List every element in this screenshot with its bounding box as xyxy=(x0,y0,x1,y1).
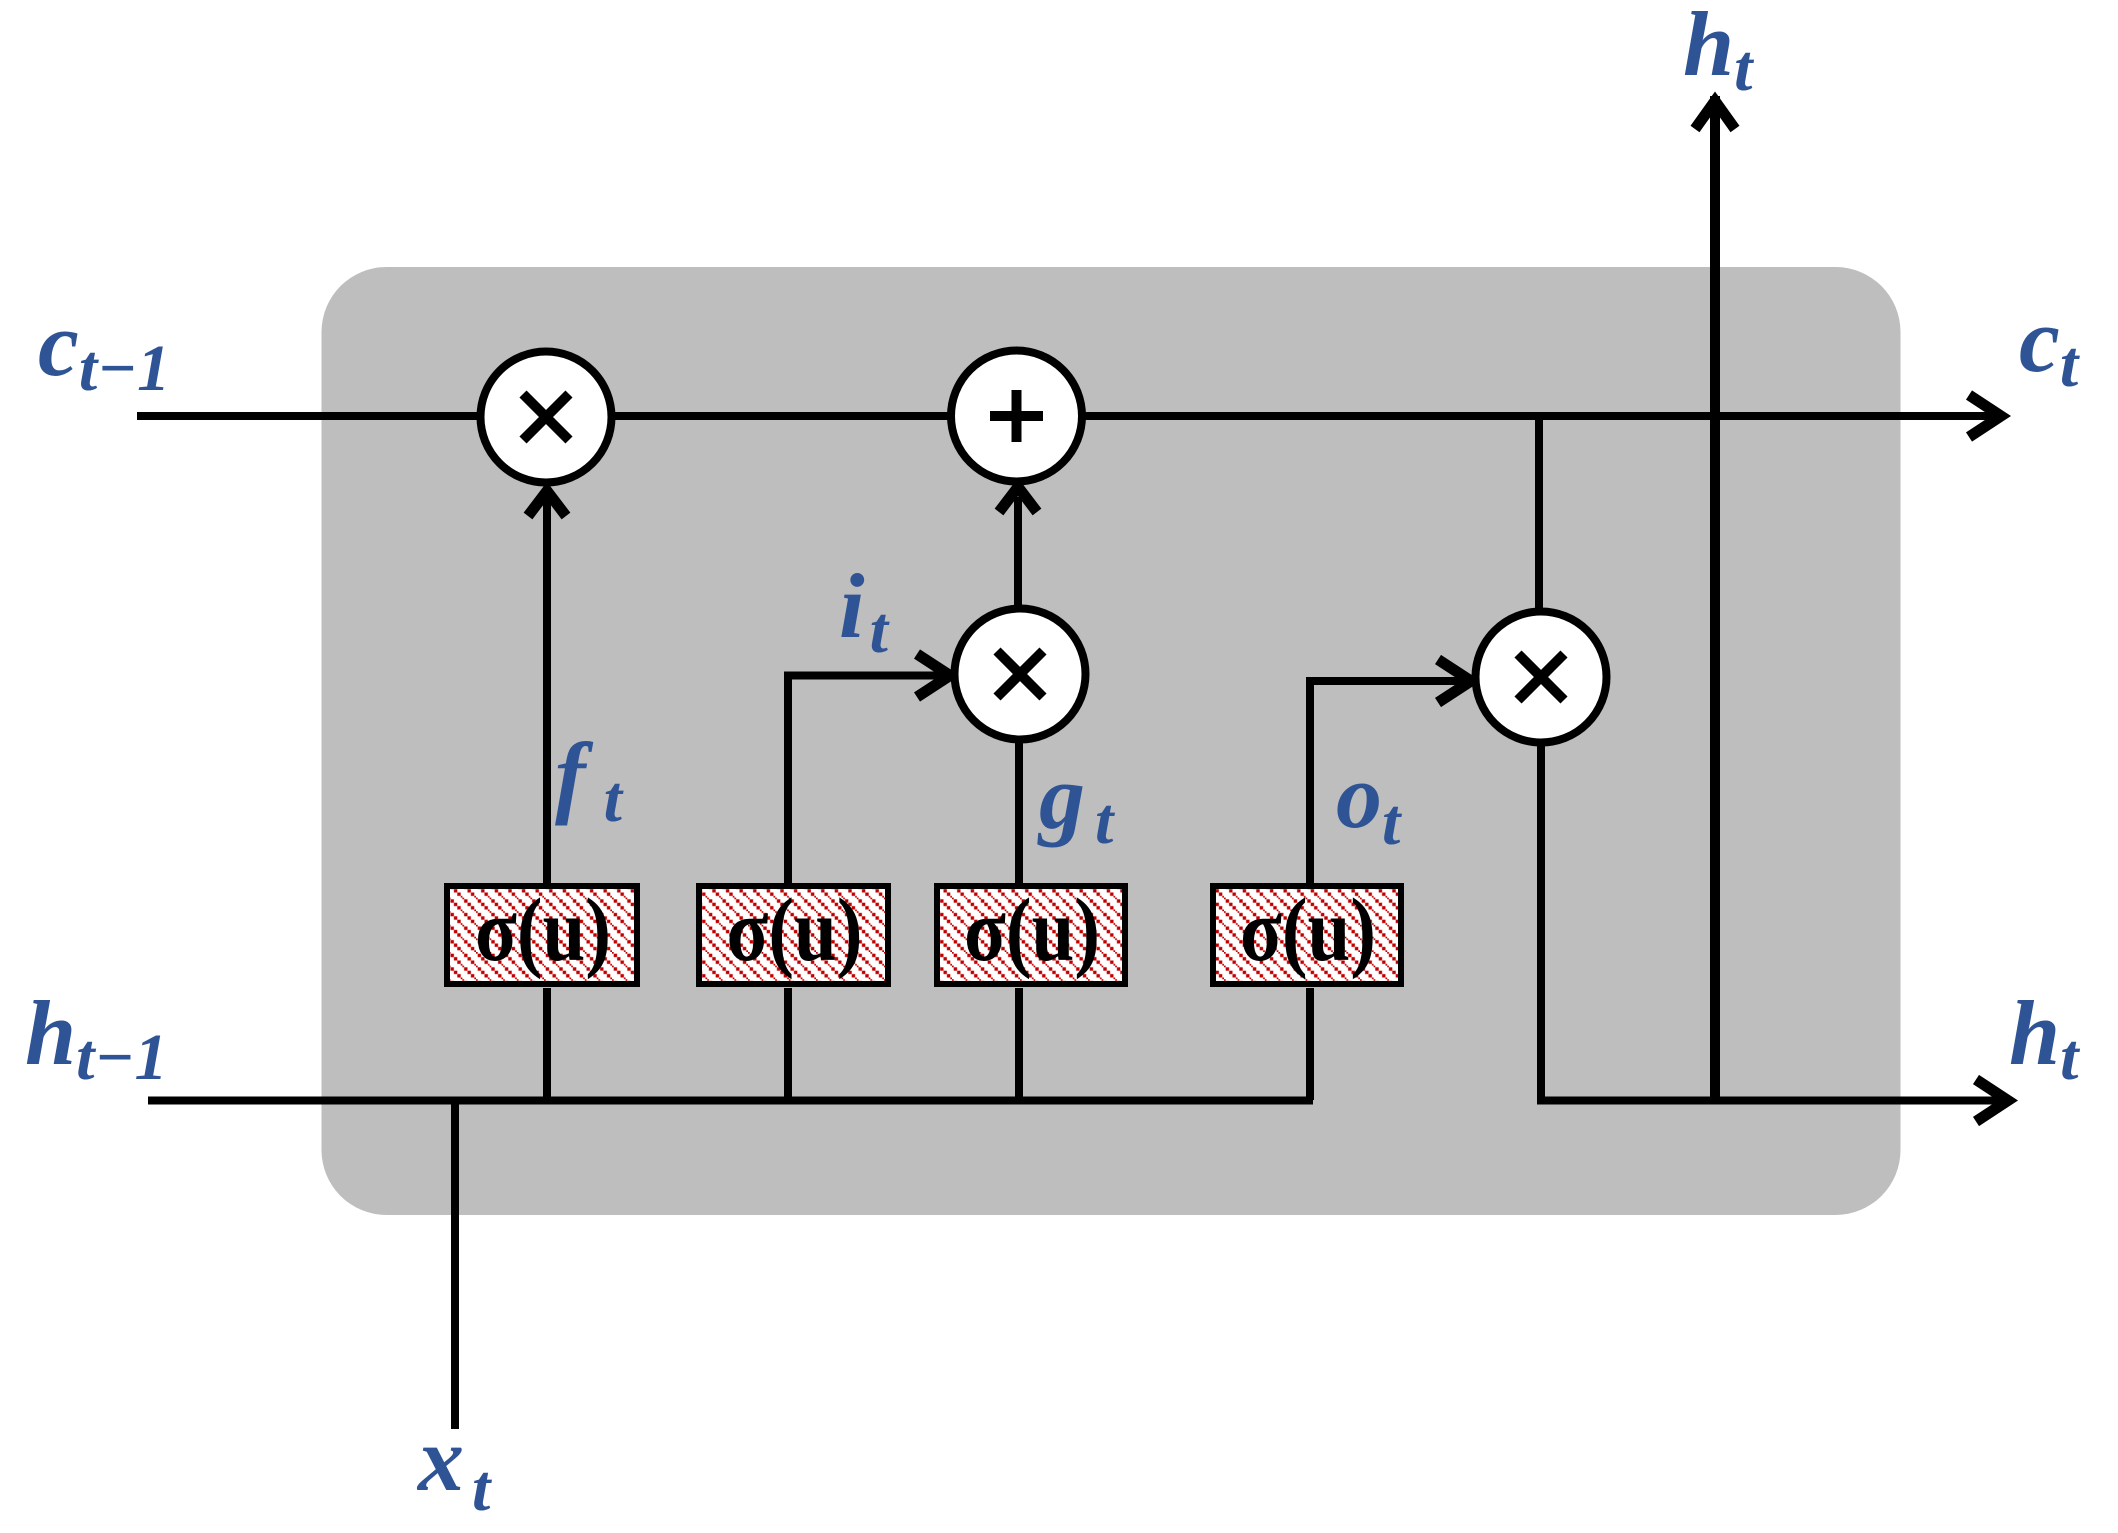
arrowhead: h_t top output xyxy=(1695,101,1735,129)
wire: cell state line c_{t-1} to c_t xyxy=(137,412,2005,420)
svg-text:ct: ct xyxy=(2019,289,2080,401)
arrowhead: c_t output xyxy=(1969,395,2001,437)
svg-text:xt: xt xyxy=(416,1408,492,1525)
svg-text:ct−1: ct−1 xyxy=(38,293,170,405)
wire: o gate elbow up and right to multiply node 3 xyxy=(1310,681,1461,884)
wire: cell line branch down to multiply node 3 xyxy=(1535,416,1543,610)
svg-text:ht: ht xyxy=(2009,982,2080,1094)
svg-text:σ(u): σ(u) xyxy=(1240,881,1376,980)
arrowhead: into add node xyxy=(999,487,1037,512)
arrowhead: i_t into multiply node 2 xyxy=(917,654,950,697)
multiply node 1 (x on cell line) xyxy=(481,352,612,483)
wire: f gate stub up to multiply node (with arrow) xyxy=(543,500,551,884)
wire: h_t vertical up output xyxy=(1710,96,1720,1101)
svg-text:ht−1: ht−1 xyxy=(25,982,168,1094)
wire: g gate stub down to h line xyxy=(1015,988,1023,1100)
arrowhead: o_t into multiply node 3 xyxy=(1438,660,1471,703)
wire: o gate stub down to h line xyxy=(1306,988,1314,1100)
arrowhead: h_t right output xyxy=(1976,1080,2008,1122)
wire: multiply node 2 up to add node (with arrow) xyxy=(1014,497,1022,605)
sigma gate box 1 (forget gate) xyxy=(447,881,637,984)
svg-text:ht: ht xyxy=(1683,0,1754,105)
svg-text:σ(u): σ(u) xyxy=(727,881,863,980)
sigma gate box 4 (output gate) xyxy=(1213,881,1401,984)
wire: multiply node 3 down to h line xyxy=(1537,744,1545,1101)
svg-text:σ(u): σ(u) xyxy=(475,881,611,980)
wire: f gate stub down to h line xyxy=(543,988,551,1100)
wire: hidden state line h_{t-1} input xyxy=(148,1097,1313,1105)
wire: i gate stub down to h line xyxy=(784,988,792,1100)
multiply node 3 (x, output gate) xyxy=(1476,612,1607,743)
add node (+ on cell line) xyxy=(951,351,1082,482)
sigma gate box 3 (cell candidate gate) xyxy=(937,881,1125,984)
sigma gate box 2 (input gate) xyxy=(699,881,888,984)
wire: h_t output line to right xyxy=(1537,1097,2012,1105)
wire: g gate stub up to multiply node 2 xyxy=(1015,743,1023,884)
svg-text:σ(u): σ(u) xyxy=(964,881,1100,980)
wire: i gate elbow up and right to multiply node 2 xyxy=(788,676,940,885)
LSTM cell body (gray rounded box) xyxy=(322,267,1901,1215)
wire: x_t input vertical xyxy=(451,1101,459,1430)
multiply node 2 (x, input gate) xyxy=(955,609,1086,740)
arrowhead: into multiply node 1 xyxy=(528,491,566,516)
